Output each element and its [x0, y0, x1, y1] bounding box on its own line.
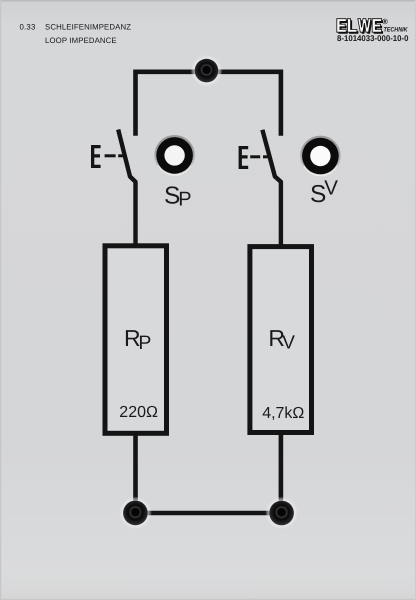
switch SP actuator dashes: [105, 154, 116, 157]
switch SP blade and lower wire: [118, 130, 135, 247]
svg-text:0.33: 0.33: [20, 23, 36, 32]
wire: top horizontal bus: [136, 70, 281, 75]
label SV: [310, 177, 338, 208]
switch SV actuator dashes: [250, 155, 260, 158]
svg-text:LOOP IMPEDANCE: LOOP IMPEDANCE: [45, 36, 117, 45]
node: top socket: [191, 55, 223, 87]
switch SV blade and lower wire: [262, 130, 281, 247]
resistor RV box: [250, 247, 312, 433]
wire: right vertical drop to switch SV: [279, 70, 284, 136]
switch SP actuator E: [91, 145, 101, 168]
svg-text:220Ω: 220Ω: [119, 404, 158, 421]
resistor RP box: [105, 246, 167, 433]
svg-text:P: P: [138, 332, 151, 354]
wire: RV bottom lead: [279, 433, 284, 506]
switch SV actuator E: [239, 146, 249, 169]
wire: left vertical drop to switch SP: [133, 70, 138, 136]
pushbutton SV: [300, 136, 341, 177]
label SP: [164, 183, 192, 211]
node: bottom right socket: [265, 497, 298, 530]
ELWE logo: [337, 17, 408, 34]
pushbutton SP: [154, 135, 195, 176]
wire: bottom horizontal bus: [135, 511, 281, 516]
svg-text:SCHLEIFENIMPEDANZ: SCHLEIFENIMPEDANZ: [45, 23, 131, 32]
svg-text:V: V: [324, 177, 338, 200]
label RP: [124, 325, 151, 354]
svg-text:V: V: [282, 333, 295, 354]
wire: RP bottom lead: [133, 433, 138, 505]
svg-text:4,7kΩ: 4,7kΩ: [262, 405, 304, 422]
svg-text:8-1014033-000-10-0: 8-1014033-000-10-0: [337, 33, 409, 43]
svg-text:P: P: [178, 189, 191, 211]
label RV: [268, 325, 295, 353]
svg-text:®: ®: [382, 17, 388, 26]
node: bottom left socket: [119, 496, 152, 529]
